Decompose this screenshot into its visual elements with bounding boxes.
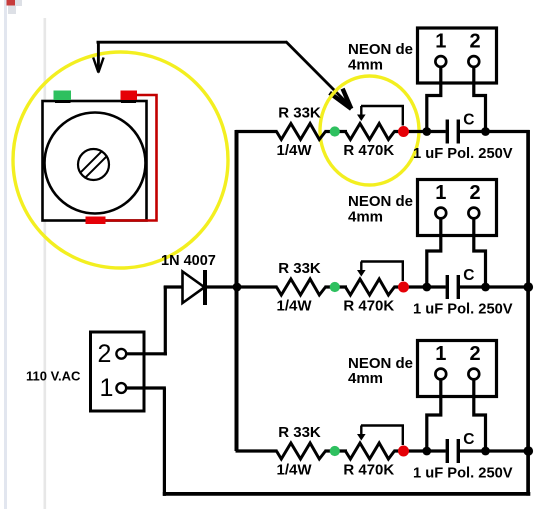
neon lead 1 row 1 (427, 67, 441, 132)
callout left arrow shaft (97, 42, 100, 68)
callout right arrowhead barb B (343, 89, 352, 109)
resistor R 33K row 3 (277, 443, 326, 459)
capacitor C plate right row 2 (457, 275, 460, 299)
row 1 wire left (236, 130, 278, 133)
neon terminal circle 2 row 2 (468, 208, 479, 219)
row 1 wire pot-to-cap (394, 130, 446, 133)
neon terminal circle 2 row 3 (468, 369, 479, 380)
green node dot row 1 (330, 126, 340, 136)
screw slot hatch line 1 (85, 157, 106, 178)
neon lamp box row 1 (418, 28, 497, 83)
svg-text:R 470K: R 470K (343, 142, 394, 159)
neon lead 2 row 2 (474, 219, 486, 288)
neon lead 1 row 3 (427, 380, 441, 452)
bottom rail wire (163, 492, 531, 496)
svg-text:110 V.AC: 110 V.AC (26, 369, 81, 384)
svg-text:NEON de: NEON de (348, 41, 413, 58)
capacitor C plate left row 3 (446, 439, 449, 463)
wire term1 to lower riser (126, 386, 166, 389)
green terminal tab (55, 98, 71, 103)
svg-text:1 uF Pol. 250V: 1 uF Pol. 250V (413, 302, 513, 318)
row 2 wire mid (325, 285, 348, 288)
svg-text:1: 1 (100, 374, 114, 402)
right bus vertical wire (526, 130, 530, 496)
svg-text:R 33K: R 33K (278, 424, 321, 441)
pot wiper link row 1 (361, 106, 403, 126)
svg-text:1: 1 (435, 182, 446, 204)
red jumper wire (106, 95, 157, 221)
screw slot hatch line 2 (81, 151, 102, 172)
neon terminal circle 2 row 1 (468, 56, 479, 67)
svg-text:2: 2 (469, 343, 480, 365)
potentiometer R 470K row 3 (345, 443, 394, 459)
neon lead 2 row 3 (474, 380, 486, 452)
riser term2 up to diode (164, 286, 167, 356)
pot wiper arrowhead row 3 (357, 434, 366, 441)
riser term1 down to bottom rail (163, 388, 166, 496)
row 3 wire left (236, 449, 278, 452)
red node dot row 2 (398, 282, 409, 293)
svg-text:4mm: 4mm (348, 57, 383, 74)
pot wiper arrowhead row 2 (357, 270, 366, 277)
resistor R 33K row 1 (277, 124, 326, 140)
resistor R 33K row 2 (277, 279, 326, 295)
svg-text:2: 2 (98, 340, 112, 368)
callout horizontal line (97, 41, 288, 44)
junction dot left of cap row 1 (422, 127, 431, 136)
svg-text:1: 1 (435, 31, 446, 53)
pot wiper link row 2 (361, 262, 403, 282)
diode anode wire (164, 285, 182, 288)
wire term2 to diode riser (126, 352, 167, 355)
red node dot row 1 (398, 126, 409, 137)
pot wiper arrow shaft row 3 (360, 426, 362, 437)
faint vertical artifact line (44, 18, 47, 509)
capacitor C plate left row 2 (446, 275, 449, 299)
neon terminal circle 1 row 2 (435, 208, 446, 219)
svg-text:R 33K: R 33K (278, 105, 321, 122)
red terminal tab bottom (86, 217, 106, 225)
pot wiper arrow shaft row 1 (360, 106, 362, 117)
neon terminal circle 1 row 1 (435, 56, 446, 67)
svg-text:1/4W: 1/4W (276, 298, 312, 315)
junction dot left of cap row 2 (422, 283, 431, 292)
callout diagonal line (286, 42, 348, 104)
svg-text:1N 4007: 1N 4007 (161, 253, 216, 269)
red node dot row 3 (398, 446, 409, 457)
svg-text:C: C (463, 431, 474, 448)
row 1 wire cap-to-bus (460, 130, 530, 133)
pot wiper link row 3 (361, 426, 403, 446)
svg-text:1/4W: 1/4W (276, 462, 312, 479)
neon lamp box row 2 (418, 180, 497, 236)
potentiometer disc (45, 113, 146, 214)
row 2 wire cap-to-bus (460, 285, 530, 288)
neon terminal circle 1 row 3 (435, 369, 446, 380)
pot wiper arrow shaft row 2 (360, 262, 362, 273)
green node dot row 2 (330, 282, 340, 292)
svg-text:1: 1 (435, 343, 446, 365)
svg-text:1/4W: 1/4W (276, 142, 312, 159)
row 3 wire pot-to-cap (394, 449, 446, 452)
svg-text:1 uF Pol. 250V: 1 uF Pol. 250V (413, 466, 513, 482)
neon lamp box row 3 (418, 341, 497, 397)
svg-text:2: 2 (469, 182, 480, 204)
capacitor C plate left row 1 (446, 120, 449, 144)
green node dot row 3 (330, 446, 340, 456)
svg-text:NEON de: NEON de (348, 193, 413, 210)
svg-text:R 33K: R 33K (278, 260, 321, 277)
svg-text:4mm: 4mm (348, 209, 383, 226)
svg-text:C: C (463, 267, 474, 284)
svg-text:2: 2 (469, 31, 480, 53)
junction dot diode/bus (233, 283, 242, 292)
neon lead 2 row 1 (474, 67, 486, 132)
row 3 wire cap-to-bus (460, 449, 530, 452)
svg-text:C: C (463, 112, 474, 129)
potentiometer R 470K row 2 (345, 279, 394, 295)
capacitor C plate right row 3 (457, 439, 460, 463)
svg-text:1 uF Pol. 250V: 1 uF Pol. 250V (413, 146, 513, 162)
yellow circle around row-1 pot (320, 76, 419, 185)
balloon yellow circle (13, 52, 228, 268)
diode cathode bar (203, 270, 207, 305)
terminal 2 circle (116, 349, 126, 359)
svg-text:R 470K: R 470K (343, 298, 394, 315)
svg-text:4mm: 4mm (348, 370, 383, 387)
junction dot right bus row 3 (524, 446, 534, 456)
top-left gray smudge artifact (8, 0, 22, 14)
svg-text:R 470K: R 470K (343, 462, 394, 479)
pot wiper arrowhead row 1 (357, 115, 366, 122)
potentiometer body square (43, 101, 147, 221)
junction dot right of cap row 3 (481, 447, 490, 456)
faint scrollbar artifact left edge (4, 0, 7, 509)
junction dot right of cap row 2 (481, 283, 490, 292)
capacitor C plate right row 1 (457, 120, 460, 144)
row 1 wire mid (325, 130, 348, 133)
row 3 wire mid (325, 449, 348, 452)
row 2 wire pot-to-cap (394, 285, 446, 288)
source box (91, 332, 145, 411)
callout left arrowhead tip (96, 67, 101, 74)
diode triangle (183, 272, 205, 304)
callout left arrowhead barb L (93, 58, 98, 73)
junction dot right bus row 2 (524, 282, 534, 292)
callout left arrowhead barb R (98, 58, 103, 73)
diode cathode wire (206, 285, 239, 288)
callout right arrowhead barb A (330, 93, 352, 109)
row 2 wire left (236, 285, 278, 288)
neon lead 1 row 2 (427, 219, 441, 288)
junction dot right of cap row 1 (481, 127, 490, 136)
red terminal tab top-right (121, 98, 136, 103)
left bus vertical wire (235, 130, 239, 451)
junction dot left of cap row 3 (422, 447, 431, 456)
potentiometer screw slot circle (78, 149, 109, 180)
top-left red square artifact (7, 0, 16, 6)
terminal 1 circle (116, 383, 126, 393)
potentiometer R 470K row 1 (345, 124, 394, 140)
